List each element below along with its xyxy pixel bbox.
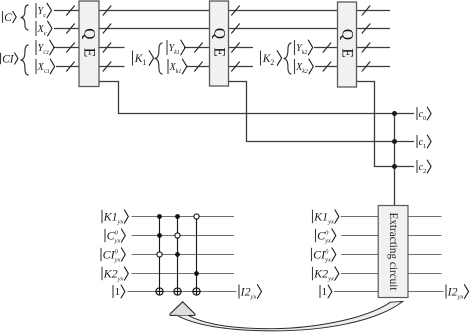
wire XCI/Xk y=66.5 x186-209.5 bbox=[186, 66, 210, 68]
wire bottom-right row C0 in bbox=[341, 235, 378, 237]
gate line v1 bbox=[159, 217, 161, 296]
ket |I2yx> right bbox=[446, 285, 469, 301]
wire bottom-right row K1 out bbox=[408, 216, 442, 218]
bus slash x=70.5 y=28.5 bbox=[66, 24, 74, 34]
svg-text:1: 1 bbox=[142, 58, 146, 67]
curved arrow head bbox=[170, 302, 195, 316]
svg-text:I2: I2 bbox=[240, 285, 251, 299]
ket |YCI> bbox=[36, 40, 54, 56]
wire bottom-left row C0 bbox=[132, 235, 235, 237]
ket |K1yx> right bbox=[313, 210, 339, 226]
ket |Xk1> bbox=[168, 59, 187, 75]
bus slash x=366 y=10.5 bbox=[362, 6, 370, 16]
svg-text:yx: yx bbox=[327, 276, 334, 283]
bus slash x=70.5 y=47.5 bbox=[66, 43, 74, 53]
brace K1 bbox=[155, 43, 163, 74]
wire Yc y=10.5 x54-79 bbox=[54, 10, 79, 12]
control dot v1 C bbox=[157, 233, 162, 238]
bus slash x=107 y=47.5 bbox=[103, 43, 111, 53]
svg-text:Q E: Q E bbox=[211, 28, 228, 59]
ket |Yc> bbox=[36, 3, 52, 19]
wire Yc y=10.5 x228.5-337.5 bbox=[229, 10, 338, 12]
wire XCI/Xk y=66.5 x56-79 bbox=[56, 66, 79, 68]
bus slash x=107 y=10.5 bbox=[103, 6, 111, 16]
junction dot c2 bbox=[392, 164, 397, 169]
wire Xc y=28.5 x99-209.5 bbox=[99, 28, 210, 30]
ket |K1yx> left bbox=[102, 210, 128, 226]
wire Yc y=10.5 x99-209.5 bbox=[99, 10, 210, 12]
svg-text:K1: K1 bbox=[103, 210, 118, 224]
svg-text:K2: K2 bbox=[313, 267, 328, 281]
ket |Xk2> bbox=[295, 59, 314, 75]
gate line v3 bbox=[196, 219, 198, 295]
ket |CI> bbox=[1, 53, 19, 66]
ket |C0yx> right bbox=[316, 229, 336, 245]
bus slash x=366 y=47.5 bbox=[362, 43, 370, 53]
ket |CI0yx> left bbox=[101, 248, 125, 264]
gate QE1 box bbox=[79, 1, 99, 87]
curved arrow tail band bbox=[177, 301, 403, 331]
control dot v2 K1 bbox=[175, 214, 180, 219]
wire vertical bus to extracting circuit bbox=[394, 114, 396, 207]
svg-text:yx: yx bbox=[457, 294, 464, 301]
svg-text:1: 1 bbox=[423, 143, 426, 150]
svg-text:k2: k2 bbox=[302, 69, 308, 75]
bus slash x=366 y=28.5 bbox=[362, 24, 370, 34]
bus slash x=327 y=47.5 bbox=[323, 43, 331, 53]
wire XCI/Xk y=66.5 x315-337.5 bbox=[315, 66, 338, 68]
svg-text:0: 0 bbox=[423, 115, 426, 122]
ket |c0> bbox=[417, 107, 431, 122]
svg-text:Q E: Q E bbox=[339, 29, 356, 60]
wire bottom-right row C0 out bbox=[408, 235, 442, 237]
junction dot c0 bbox=[392, 111, 397, 116]
svg-text:C: C bbox=[4, 12, 12, 24]
wire XCI/Xk y=66.5 x99-124.5 bbox=[99, 66, 125, 68]
control dot v1 K1 bbox=[157, 214, 162, 219]
wire bottom-left row K2 bbox=[132, 273, 235, 275]
svg-text:I2: I2 bbox=[447, 285, 458, 299]
ket |K2yx> right bbox=[313, 267, 339, 283]
svg-text:2: 2 bbox=[270, 58, 274, 67]
ket |I2yx> left bbox=[239, 285, 262, 301]
ket |c1> bbox=[417, 135, 431, 150]
open control v1 CI bbox=[157, 252, 162, 257]
brace K2 bbox=[284, 43, 292, 74]
bus slash x=235.5 y=66.5 bbox=[231, 62, 239, 72]
ket |1> right bbox=[320, 285, 332, 298]
CNOT target x=159.5 bbox=[156, 288, 163, 295]
bus slash x=70.5 y=10.5 bbox=[66, 6, 74, 16]
ket |CI0yx> right bbox=[312, 248, 336, 264]
wire YCI/Yk y=47.5 x228.5-253 bbox=[229, 47, 254, 49]
wire QE3 output to c2 bbox=[357, 82, 415, 167]
wire bottom-right row CI0 in bbox=[341, 254, 378, 256]
bus slash x=70.5 y=66.5 bbox=[66, 62, 74, 72]
svg-text:CI: CI bbox=[2, 53, 15, 65]
ket |Yk2> bbox=[295, 40, 313, 56]
svg-text:c: c bbox=[44, 30, 47, 37]
wire YCI/Yk y=47.5 x184-209.5 bbox=[184, 47, 210, 49]
wire bottom-right row I out bbox=[408, 291, 444, 293]
svg-text:yx: yx bbox=[324, 257, 331, 264]
ket |K1> bbox=[133, 51, 154, 67]
svg-text:yx: yx bbox=[114, 257, 121, 264]
wire bottom-right row I in bbox=[334, 291, 378, 293]
svg-text:Q E: Q E bbox=[81, 28, 98, 59]
svg-text:Extracting circuit: Extracting circuit bbox=[387, 213, 399, 292]
ket |XCI> bbox=[36, 59, 55, 75]
ket |Yk1> bbox=[167, 40, 185, 56]
gate Extracting circuit box bbox=[378, 206, 408, 298]
CNOT target x=196.5 bbox=[193, 288, 200, 295]
svg-text:1: 1 bbox=[115, 286, 121, 298]
wire QE2 output to c1 bbox=[229, 82, 415, 142]
ket |K2yx> left bbox=[102, 267, 128, 283]
svg-text:K1: K1 bbox=[313, 210, 328, 224]
svg-text:k1: k1 bbox=[176, 69, 182, 75]
wire YCI/Yk y=47.5 x53-79 bbox=[53, 47, 79, 49]
ket |C> bbox=[3, 11, 17, 24]
wire XCI/Xk y=66.5 x356.5-390 bbox=[357, 66, 391, 68]
wire bottom-left row I bbox=[128, 291, 237, 293]
brace CI bbox=[21, 45, 29, 75]
wire XCI/Xk y=66.5 x228.5-253 bbox=[229, 66, 254, 68]
svg-text:c: c bbox=[43, 12, 46, 19]
bus slash x=327 y=66.5 bbox=[323, 62, 331, 72]
svg-text:yx: yx bbox=[117, 219, 124, 226]
ket |K2> bbox=[261, 51, 282, 67]
wire Yc y=10.5 x356.5-390 bbox=[357, 10, 391, 12]
wire QE1 output to c0 bbox=[99, 82, 414, 114]
svg-text:yx: yx bbox=[327, 219, 334, 226]
bus slash x=107 y=66.5 bbox=[103, 62, 111, 72]
open control v2 C bbox=[175, 233, 180, 238]
gate QE2 box bbox=[210, 1, 229, 86]
ket |c2> bbox=[417, 160, 431, 175]
svg-text:k1: k1 bbox=[174, 50, 180, 56]
CNOT target x=177.5 bbox=[174, 288, 181, 295]
ket |C0yx> left bbox=[105, 229, 125, 245]
svg-text:yx: yx bbox=[250, 294, 257, 301]
control dot v3 K2 bbox=[194, 271, 199, 276]
wire Xc y=28.5 x228.5-337.5 bbox=[229, 28, 338, 30]
svg-text:k2: k2 bbox=[302, 50, 308, 56]
svg-text:yx: yx bbox=[114, 238, 121, 245]
wire bottom-right row CI0 out bbox=[408, 254, 442, 256]
bus slash x=198.5 y=66.5 bbox=[194, 62, 202, 72]
wire bottom-left row CI0 bbox=[132, 254, 235, 256]
open control v3 K1 bbox=[194, 214, 199, 219]
wire YCI/Yk y=47.5 x356.5-390 bbox=[357, 47, 391, 49]
bus slash x=107 y=28.5 bbox=[103, 24, 111, 34]
bus slash x=235.5 y=28.5 bbox=[231, 24, 239, 34]
wire bottom-left row K1 bbox=[132, 216, 235, 218]
wire bottom-right row K1 in bbox=[341, 216, 378, 218]
svg-text:1: 1 bbox=[322, 286, 328, 298]
bus slash x=235.5 y=10.5 bbox=[231, 6, 239, 16]
wire bottom-right row K2 in bbox=[341, 273, 378, 275]
bus slash x=366 y=66.5 bbox=[362, 62, 370, 72]
control dot v2 CI bbox=[175, 252, 180, 257]
svg-text:2: 2 bbox=[423, 168, 426, 175]
ket |1> left bbox=[113, 285, 125, 298]
wire YCI/Yk y=47.5 x314-337.5 bbox=[314, 47, 338, 49]
svg-text:yx: yx bbox=[324, 238, 331, 245]
wire bottom-right row K2 out bbox=[408, 273, 442, 275]
wire YCI/Yk y=47.5 x99-124.5 bbox=[99, 47, 125, 49]
junction dot c1 bbox=[392, 139, 397, 144]
brace C bbox=[21, 5, 29, 30]
gate QE3 box bbox=[338, 2, 357, 87]
ket |Xc> bbox=[36, 21, 52, 37]
wire Xc y=28.5 x356.5-390 bbox=[357, 28, 391, 30]
svg-text:yx: yx bbox=[117, 276, 124, 283]
svg-text:K2: K2 bbox=[103, 267, 118, 281]
bus slash x=235.5 y=47.5 bbox=[231, 43, 239, 53]
wire Xc y=28.5 x54-79 bbox=[54, 28, 79, 30]
bus slash x=198.5 y=47.5 bbox=[194, 43, 202, 53]
gate line v2 bbox=[177, 217, 179, 296]
